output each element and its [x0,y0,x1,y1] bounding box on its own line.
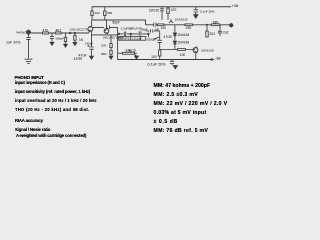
transistor Q1 2SC1775 [88,27,93,32]
ground [109,56,113,59]
resistor 100 [91,11,93,16]
wire diode column [174,25,176,50]
capacitor 0.47uF/35 plates [139,31,141,35]
resistor 4K7 [55,32,61,34]
capacitor 47/25 [158,40,162,42]
node [148,33,149,34]
output terminal [230,24,233,27]
svg-text:10K: 10K [101,43,106,47]
svg-text:56pF: 56pF [141,27,148,31]
svg-text:1N4148: 1N4148 [178,41,190,45]
capacitor 0.1uF 20% decoupling [194,7,198,14]
capacitor 1uF 20% [26,34,30,58]
resistor 680 [104,11,106,16]
transistor Q3 2SA1015 [169,19,173,23]
svg-text:100: 100 [154,27,159,31]
svg-text:2u2: 2u2 [223,31,229,35]
svg-text:0.1uF 20%: 0.1uF 20% [200,9,215,13]
capacitor 47uF [88,45,94,56]
component box 330uF/6 1.2x1uF [119,37,146,41]
wire node line [92,20,158,25]
wire feedback row [118,34,149,38]
wire right column [159,43,161,60]
ground [173,66,177,69]
svg-text:1/2W 2SC1775: 1/2W 2SC1775 [69,28,88,32]
ground [50,42,54,45]
node [70,32,71,33]
ground [90,56,94,59]
svg-text:1K: 1K [79,38,84,42]
svg-text:680: 680 [213,20,219,24]
ground [135,56,139,59]
wire [91,20,93,45]
capacitor 560pF [151,29,153,32]
power rail -38 [118,59,214,61]
svg-text:PHONO: PHONO [16,31,27,35]
svg-text:1N4148: 1N4148 [178,33,190,37]
resistor 100 base [177,49,185,51]
svg-text:100: 100 [95,11,100,15]
wire upper cap row [146,31,160,40]
svg-text:10K: 10K [186,26,193,30]
ground [73,42,77,45]
capacitor output [218,25,222,36]
resistor 100K [74,33,76,42]
transistor Q2 2SC1815 [104,29,109,34]
diode D1 1N4148 [173,33,176,36]
resistor 470 [43,32,49,34]
svg-text:100: 100 [151,55,157,59]
svg-text:1uF 20%: 1uF 20% [6,40,21,44]
wire diagonal 1500pF [154,37,160,39]
ground [64,44,68,47]
capacitor coupling [154,23,156,27]
svg-text:470: 470 [171,8,177,12]
resistor 470 branch [167,7,169,20]
resistor 680 [211,24,220,26]
resistor 56R [110,54,112,56]
svg-text:2K2: 2K2 [209,32,215,36]
svg-text:680: 680 [107,11,112,15]
wire signal line [31,32,89,34]
svg-text:100: 100 [161,26,167,30]
svg-text:100: 100 [180,53,186,57]
node [206,24,207,25]
svg-text:22K/10: 22K/10 [149,9,160,13]
capacitor 33pF [107,26,110,29]
capacitor 0.1uF 20% lower [170,60,174,66]
svg-text:-38: -38 [215,56,221,60]
resistor 10K [110,35,112,50]
svg-text:56pF: 56pF [112,20,120,24]
wire [92,20,118,60]
svg-text:+38: +38 [232,4,238,8]
svg-text:1.2x1uF: 1.2x1uF [131,37,141,41]
svg-text:2SA1015: 2SA1015 [175,18,188,22]
ground [25,59,33,63]
capacitor 2.2uF/35 [124,32,125,37]
resistor 100 a [158,24,165,26]
resistor 10K b [185,24,193,26]
wire output line [164,24,230,26]
node [74,32,75,33]
svg-text:47/25: 47/25 [164,35,172,39]
svg-text:470R: 470R [74,57,83,61]
node [118,33,119,34]
svg-text:140pF: 140pF [85,41,93,45]
phono jack J1 [26,30,30,34]
spec text block [15,76,44,81]
ground [194,15,198,19]
wire [91,7,93,20]
svg-text:100pF: 100pF [55,36,64,40]
svg-text:1500pF: 1500pF [147,37,157,41]
wire [104,7,106,20]
transistor Q4 2SA1015 [193,48,198,53]
resistor 100 [159,50,161,56]
svg-text:4K7: 4K7 [56,29,62,33]
svg-text:470: 470 [43,29,49,33]
svg-text:22K/10: 22K/10 [125,49,136,53]
wire [160,50,196,60]
resistor 2K2 [206,25,208,31]
power rail +38 [92,6,231,8]
capacitor 22K/10 branch [160,7,164,20]
node [130,33,131,34]
svg-text:2SA1015: 2SA1015 [201,49,214,53]
svg-text:56R: 56R [101,52,107,56]
resistor 100R [65,33,67,44]
wire coupling [93,26,118,28]
svg-text:0.1uF 20%: 0.1uF 20% [148,62,167,66]
capacitor 100pF [50,33,54,42]
trimmer 22K/10 [118,50,137,56]
svg-text:330uF/6: 330uF/6 [119,37,129,41]
diode D2 1N4148 [173,41,176,44]
